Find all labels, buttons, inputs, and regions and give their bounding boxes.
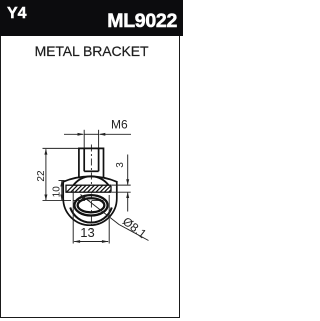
bracket dome top: [63, 176, 117, 181]
card frame: [0, 36, 180, 318]
part number ML9022: [107, 10, 177, 33]
leader diameter 8.1: [81, 195, 149, 241]
svg-text:Ø8.1: Ø8.1: [120, 214, 149, 241]
centerline vertical: [90, 145, 92, 230]
svg-text:M6: M6: [111, 118, 128, 132]
housing sphere bottom arc: [70, 208, 112, 223]
dimension 3: [112, 155, 131, 212]
stud M6 outer: [79, 148, 104, 178]
housing sphere top arc: [73, 176, 109, 185]
header bar: [0, 0, 183, 36]
section plate hatched: [66, 185, 111, 192]
dimension M6: [64, 130, 131, 148]
code Y4: [7, 5, 27, 23]
stud thread root bottom: [84, 170, 98, 172]
svg-text:13: 13: [80, 225, 94, 240]
stud thread root right: [98, 148, 100, 171]
title METAL BRACKET: [0, 43, 183, 59]
dimension 10: [59, 181, 65, 201]
dimension 13: [73, 190, 109, 244]
centerline horizontal: [43, 199, 65, 201]
stud thread root left: [83, 148, 85, 171]
svg-text:3: 3: [115, 162, 126, 168]
svg-text:22: 22: [36, 170, 47, 182]
ball socket bore: [78, 198, 105, 212]
dimension 22: [43, 148, 79, 200]
svg-text:10: 10: [51, 186, 62, 198]
bracket body silhouette: [63, 181, 117, 225]
ball socket ring: [74, 195, 107, 215]
